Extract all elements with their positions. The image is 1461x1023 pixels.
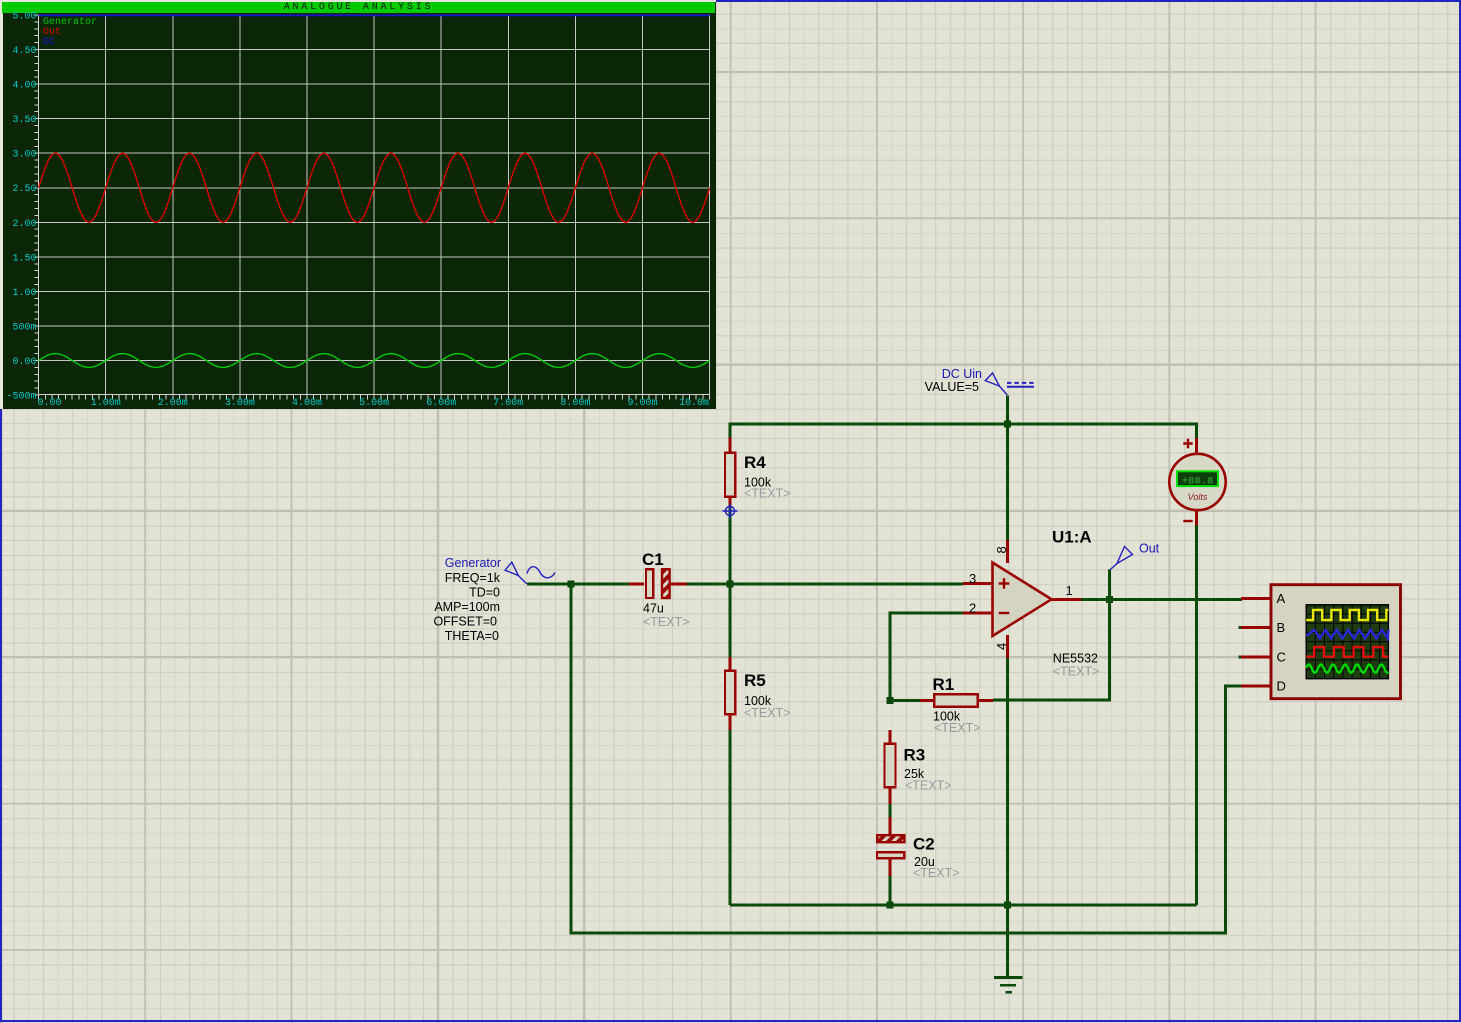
svg-text:1.00m: 1.00m: [91, 398, 121, 409]
svg-text:AMP=100m: AMP=100m: [434, 600, 500, 614]
svg-text:C2: C2: [913, 835, 935, 854]
svg-text:10.0m: 10.0m: [679, 398, 709, 409]
svg-text:0.00: 0.00: [37, 398, 61, 409]
svg-text:TD=0: TD=0: [469, 586, 500, 600]
svg-text:4.50: 4.50: [12, 46, 36, 57]
svg-text:OFFSET=0: OFFSET=0: [433, 615, 497, 629]
svg-text:3.00: 3.00: [12, 150, 36, 161]
svg-text:<TEXT>: <TEXT>: [1053, 664, 1100, 678]
svg-text:FREQ=1k: FREQ=1k: [445, 571, 501, 585]
svg-text:1.50: 1.50: [12, 253, 36, 264]
svg-text:<TEXT>: <TEXT>: [744, 706, 791, 720]
svg-text:3.50: 3.50: [12, 115, 36, 126]
svg-text:2.00m: 2.00m: [158, 398, 188, 409]
svg-text:D: D: [1277, 679, 1286, 694]
svg-text:6.00m: 6.00m: [426, 398, 456, 409]
svg-text:500m: 500m: [12, 322, 36, 333]
svg-text:Generator: Generator: [445, 556, 501, 570]
svg-text:DC: DC: [43, 37, 55, 48]
svg-text:9.00m: 9.00m: [627, 398, 657, 409]
svg-text:0.00: 0.00: [12, 357, 36, 368]
svg-text:3: 3: [969, 571, 976, 586]
svg-text:3.00m: 3.00m: [225, 398, 255, 409]
svg-text:NE5532: NE5532: [1053, 651, 1098, 665]
svg-text:R5: R5: [744, 671, 766, 690]
svg-text:<TEXT>: <TEXT>: [905, 779, 952, 793]
svg-text:R1: R1: [933, 675, 955, 694]
svg-text:C1: C1: [642, 550, 664, 569]
svg-text:<TEXT>: <TEXT>: [934, 721, 981, 735]
svg-text:-500m: -500m: [6, 392, 36, 403]
svg-text:5.00: 5.00: [12, 12, 36, 23]
svg-text:7.00m: 7.00m: [493, 398, 523, 409]
svg-text:R3: R3: [904, 746, 926, 765]
svg-text:1: 1: [1066, 583, 1073, 598]
svg-text:<TEXT>: <TEXT>: [643, 615, 690, 629]
svg-text:Volts: Volts: [1188, 492, 1208, 502]
svg-text:VALUE=5: VALUE=5: [925, 380, 979, 394]
svg-text:B: B: [1277, 620, 1286, 635]
svg-text:A: A: [1277, 591, 1286, 606]
svg-text:8.00m: 8.00m: [560, 398, 590, 409]
svg-text:8: 8: [994, 546, 1009, 553]
svg-text:4.00: 4.00: [12, 81, 36, 92]
svg-text:5.00m: 5.00m: [359, 398, 389, 409]
svg-text:U1:A: U1:A: [1052, 528, 1092, 547]
svg-text:2: 2: [969, 601, 976, 616]
svg-text:+88.8: +88.8: [1182, 475, 1214, 487]
svg-text:DC Uin: DC Uin: [942, 367, 982, 381]
svg-text:2.50: 2.50: [12, 184, 36, 195]
svg-text:<TEXT>: <TEXT>: [913, 866, 960, 880]
svg-text:4: 4: [994, 643, 1009, 650]
svg-text:<TEXT>: <TEXT>: [744, 487, 791, 501]
svg-text:C: C: [1277, 650, 1286, 665]
svg-text:47u: 47u: [643, 602, 664, 616]
svg-text:R4: R4: [744, 453, 766, 472]
svg-text:2.00: 2.00: [12, 219, 36, 230]
svg-text:THETA=0: THETA=0: [445, 629, 499, 643]
svg-text:1.00: 1.00: [12, 288, 36, 299]
svg-text:4.00m: 4.00m: [292, 398, 322, 409]
svg-text:Out: Out: [1139, 542, 1160, 556]
